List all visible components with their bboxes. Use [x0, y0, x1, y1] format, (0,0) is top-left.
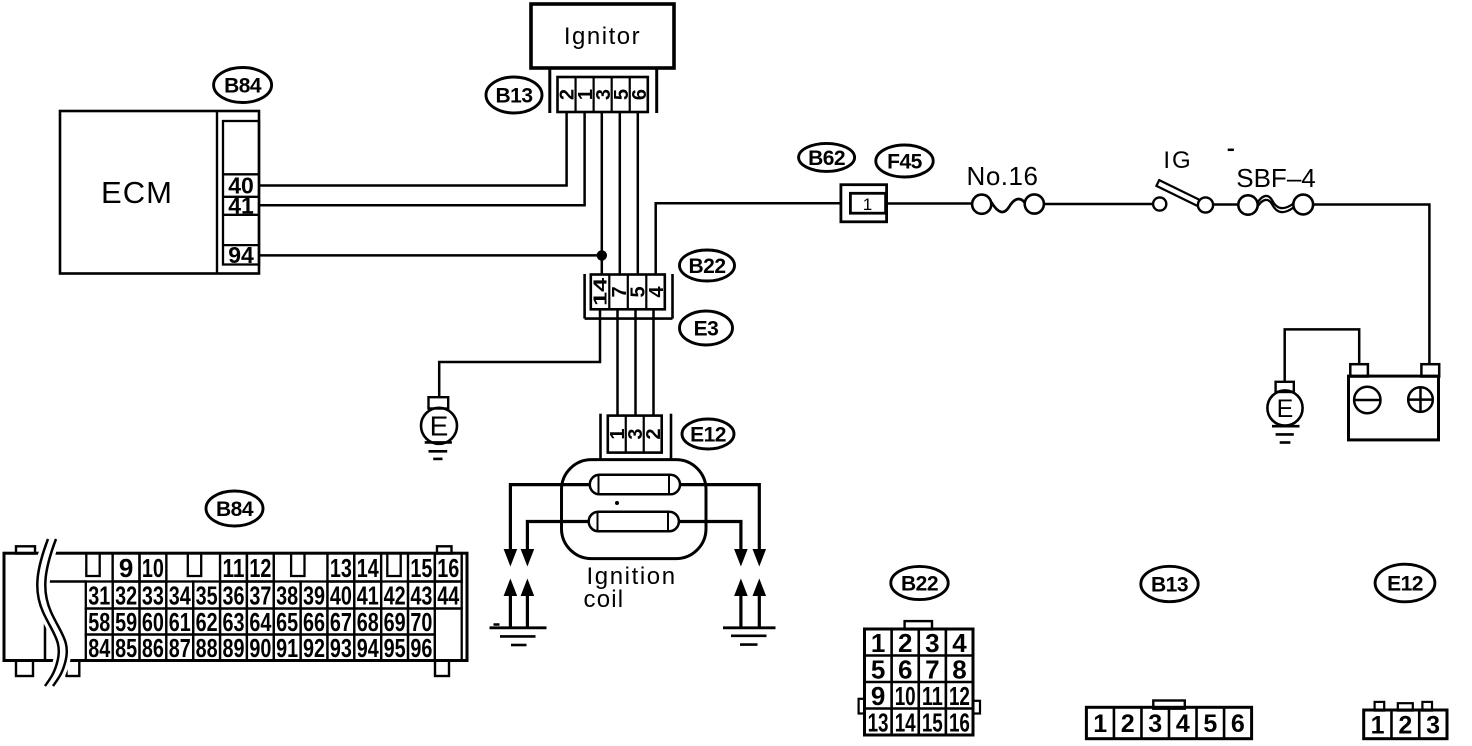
svg-text:44: 44 — [437, 581, 459, 611]
svg-text:E12: E12 — [1387, 573, 1423, 596]
svg-text:42: 42 — [384, 581, 406, 611]
svg-text:1: 1 — [1093, 710, 1107, 738]
svg-text:92: 92 — [303, 633, 325, 663]
svg-text:39: 39 — [303, 581, 325, 611]
svg-text:B22: B22 — [901, 573, 938, 596]
svg-text:3: 3 — [1148, 710, 1162, 738]
svg-text:16: 16 — [437, 553, 459, 583]
svg-text:93: 93 — [330, 633, 352, 663]
svg-text:4: 4 — [1176, 710, 1190, 738]
svg-text:Ignitor: Ignitor — [564, 23, 641, 50]
svg-text:1: 1 — [871, 628, 885, 658]
svg-text:86: 86 — [142, 633, 164, 663]
svg-text:8: 8 — [952, 654, 966, 684]
svg-text:7: 7 — [925, 654, 939, 684]
svg-text:14: 14 — [357, 553, 379, 583]
svg-text:E3: E3 — [694, 318, 719, 341]
svg-text:32: 32 — [115, 581, 137, 611]
svg-text:15: 15 — [410, 553, 432, 583]
svg-text:11: 11 — [222, 553, 244, 583]
svg-text:94: 94 — [357, 633, 379, 663]
svg-text:4: 4 — [646, 285, 668, 297]
svg-text:15: 15 — [922, 707, 943, 737]
svg-text:2: 2 — [898, 628, 912, 658]
svg-text:33: 33 — [142, 581, 164, 611]
svg-text:5: 5 — [1203, 710, 1217, 738]
svg-text:SBF–4: SBF–4 — [1236, 163, 1316, 193]
svg-text:coil: coil — [584, 586, 625, 613]
svg-text:94: 94 — [228, 242, 254, 268]
svg-text:1: 1 — [863, 195, 872, 214]
svg-text:14: 14 — [895, 707, 916, 737]
svg-text:2: 2 — [643, 429, 665, 440]
svg-text:85: 85 — [115, 633, 137, 663]
svg-text:89: 89 — [222, 633, 244, 663]
svg-text:37: 37 — [249, 581, 271, 611]
svg-text:E: E — [430, 411, 449, 442]
svg-text:9: 9 — [871, 681, 885, 711]
svg-text:88: 88 — [196, 633, 218, 663]
svg-text:6: 6 — [898, 654, 912, 684]
svg-text:13: 13 — [868, 707, 889, 737]
svg-text:9: 9 — [119, 553, 133, 583]
svg-text:91: 91 — [276, 633, 298, 663]
svg-text:41: 41 — [228, 193, 254, 219]
svg-text:2: 2 — [1121, 710, 1135, 738]
svg-text:3: 3 — [925, 628, 939, 658]
svg-text:12: 12 — [949, 681, 970, 711]
svg-text:43: 43 — [410, 581, 432, 611]
svg-text:6: 6 — [1231, 710, 1245, 738]
svg-text:E12: E12 — [690, 424, 726, 447]
svg-text:B62: B62 — [808, 147, 845, 170]
svg-text:10: 10 — [895, 681, 916, 711]
svg-text:5: 5 — [871, 654, 885, 684]
svg-text:IG: IG — [1163, 147, 1192, 174]
svg-text:13: 13 — [330, 553, 352, 583]
svg-text:14: 14 — [591, 278, 611, 306]
svg-text:41: 41 — [357, 581, 379, 611]
svg-text:ECM: ECM — [101, 175, 173, 210]
svg-text:1: 1 — [1371, 711, 1385, 739]
svg-text:10: 10 — [142, 553, 164, 583]
svg-text:B13: B13 — [1151, 574, 1188, 597]
svg-text:90: 90 — [249, 633, 271, 663]
svg-text:B22: B22 — [688, 255, 725, 278]
svg-text:B84: B84 — [224, 75, 262, 98]
svg-text:No.16: No.16 — [967, 161, 1039, 191]
svg-text:84: 84 — [88, 633, 110, 663]
svg-text:E: E — [1277, 395, 1294, 423]
svg-text:31: 31 — [88, 581, 110, 611]
svg-text:3: 3 — [1426, 711, 1440, 739]
svg-text:36: 36 — [222, 581, 244, 611]
svg-text:38: 38 — [276, 581, 298, 611]
svg-text:87: 87 — [169, 633, 191, 663]
svg-text:F45: F45 — [887, 151, 923, 174]
svg-text:B84: B84 — [216, 498, 254, 521]
svg-text:12: 12 — [249, 553, 271, 583]
svg-text:11: 11 — [922, 681, 943, 711]
svg-text:B13: B13 — [495, 85, 532, 108]
svg-text:34: 34 — [169, 581, 191, 611]
svg-text:2: 2 — [1398, 711, 1412, 739]
svg-text:35: 35 — [196, 581, 218, 611]
svg-text:40: 40 — [330, 581, 352, 611]
svg-text:96: 96 — [410, 633, 432, 663]
svg-text:95: 95 — [384, 633, 406, 663]
svg-text:6: 6 — [629, 89, 651, 100]
svg-text:16: 16 — [949, 707, 970, 737]
svg-text:4: 4 — [952, 628, 967, 658]
